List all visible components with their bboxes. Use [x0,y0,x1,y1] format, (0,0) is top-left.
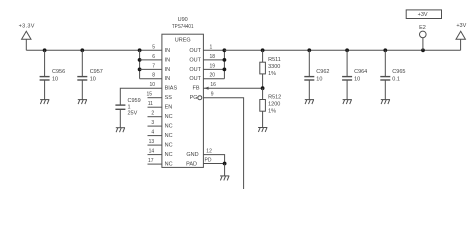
resistor R512 [260,88,281,127]
node input-bus junction [138,48,142,52]
svg-text:11: 11 [148,101,153,107]
svg-text:NC: NC [165,152,173,158]
svg-text:IN: IN [165,57,171,63]
svg-text:OUT: OUT [189,76,201,82]
svg-text:OUT: OUT [189,48,201,54]
resistor R511 [260,50,281,88]
capacitor C965 [380,50,405,99]
capacitor C959 [115,98,140,128]
wire GND pin12 [203,155,224,164]
wire PAD pin [203,163,224,165]
svg-text:1: 1 [210,44,213,50]
node rail-C964 junction [345,48,349,52]
svg-text:+3V: +3V [456,23,466,29]
svg-text:16: 16 [210,82,216,88]
svg-text:14: 14 [149,149,155,155]
node out bus top junction [223,48,227,52]
svg-text:EN: EN [165,105,173,111]
svg-text:OUT: OUT [189,57,201,63]
pin 17 stub NC [148,158,162,164]
svg-text:12: 12 [206,149,212,155]
wire OUT pin18 [203,59,224,61]
wire pin7 [140,68,162,70]
wire pin8 [140,78,162,80]
svg-text:6: 6 [152,54,155,60]
svg-text:IN: IN [165,76,171,82]
svg-text:4: 4 [151,130,154,136]
node out bus row2 junction [223,58,227,62]
FB input arrow [204,87,208,90]
pin 15 stub SS [146,92,161,98]
wire pin6 [140,59,162,61]
node rail-R511 junction [261,48,265,52]
power +3.3V [19,23,35,50]
svg-text:1: 1 [128,104,131,110]
node bus row2 junction [138,58,142,62]
power +3V right [456,23,467,50]
ground (C965) [381,100,390,105]
svg-text:18: 18 [210,54,216,60]
IC right labels [186,48,202,168]
svg-text:5: 5 [152,44,155,50]
svg-text:C962: C962 [316,69,329,75]
svg-text:8: 8 [152,73,155,79]
svg-text:TPS74401: TPS74401 [172,24,194,30]
svg-text:U90: U90 [178,17,188,23]
svg-text:3300: 3300 [268,64,280,70]
wire OUT pin20 [203,78,224,80]
pin 3 stub NC [148,120,162,126]
svg-text:10: 10 [149,82,155,88]
wire OUT bus vertical [223,50,225,78]
svg-text:C956: C956 [52,69,65,75]
pin 14 stub NC [148,149,162,155]
svg-text:+3V: +3V [418,12,428,18]
svg-text:FB: FB [192,86,199,92]
svg-text:3: 3 [151,120,154,126]
node out bus row3 junction [223,68,227,72]
svg-text:IN: IN [165,48,171,54]
ground (C959) [116,128,125,133]
node bus row3 junction [138,68,142,72]
wire OUT pin1 [203,49,224,51]
svg-text:GND: GND [186,152,198,158]
capacitor C964 [342,50,367,99]
wire output rail [224,49,460,51]
svg-text:10: 10 [90,77,96,83]
pin 13 stub NC [148,139,162,145]
svg-text:R511: R511 [268,57,281,63]
ground (C962) [305,100,314,105]
node FB junction [261,86,265,90]
ground (C956) [40,100,49,105]
svg-text:20: 20 [210,73,216,79]
svg-text:NC: NC [165,124,173,130]
svg-text:IN: IN [165,67,171,73]
PG open-drain circle [198,96,202,100]
capacitor C962 [304,50,329,99]
svg-text:1%: 1% [268,108,276,114]
ground (C957) [78,100,87,105]
svg-text:+3.3V: +3.3V [19,23,35,29]
svg-text:15: 15 [146,92,152,98]
svg-text:9: 9 [211,92,214,98]
svg-text:0.1: 0.1 [392,77,400,83]
svg-text:10: 10 [316,77,322,83]
svg-text:PD: PD [205,158,212,164]
svg-text:SS: SS [165,95,173,101]
ground (C964) [343,100,352,105]
capacitor C957 [77,50,103,99]
node input-C957 junction [80,48,84,52]
svg-text:C964: C964 [354,69,367,75]
node rail-C962 junction [307,48,311,52]
net label box +3V [406,10,441,19]
svg-text:OUT: OUT [189,67,201,73]
svg-text:BIAS: BIAS [165,86,178,92]
IC U90 box [162,17,204,167]
svg-text:R512: R512 [268,94,281,100]
node rail-E2 junction [421,48,425,52]
svg-text:13: 13 [149,139,155,145]
svg-text:NC: NC [165,162,173,168]
svg-text:C957: C957 [90,69,103,75]
svg-text:25V: 25V [128,111,138,117]
svg-text:1%: 1% [268,71,276,77]
svg-text:C959: C959 [128,98,141,104]
svg-text:17: 17 [148,158,154,164]
pin 4 stub NC [148,130,162,136]
svg-text:10: 10 [52,77,58,83]
svg-text:10: 10 [354,77,360,83]
wire IN bus vertical [139,50,141,78]
svg-text:UREG: UREG [175,37,191,43]
svg-text:NC: NC [165,114,173,120]
wire OUT pin19 [203,68,224,70]
ground (IC GND/PAD) [220,176,229,181]
wire FB pin16 [203,87,262,89]
svg-text:NC: NC [165,143,173,149]
node rail-C965 junction [383,48,387,52]
IC left labels [165,48,178,168]
node input-C956 junction [43,48,47,52]
pin 11 stub EN [148,101,162,107]
capacitor C956 [40,50,66,99]
pin 2 stub NC [148,111,162,117]
ground (R512) [258,128,267,133]
wire to IC ground [224,164,226,176]
svg-text:1200: 1200 [268,101,280,107]
wire BIAS pin10 [120,88,162,105]
testpoint E2 [419,25,426,50]
svg-text:19: 19 [210,63,216,69]
svg-text:2: 2 [151,111,154,117]
svg-text:NC: NC [165,133,173,139]
svg-text:PAD: PAD [186,162,197,168]
svg-text:PG: PG [190,95,198,101]
node gnd-pad junction [223,162,227,166]
svg-text:E2: E2 [419,25,426,31]
svg-text:C965: C965 [392,69,405,75]
wire PG pin9 [203,98,243,189]
wire input rail [26,49,162,51]
svg-text:7: 7 [152,63,155,69]
